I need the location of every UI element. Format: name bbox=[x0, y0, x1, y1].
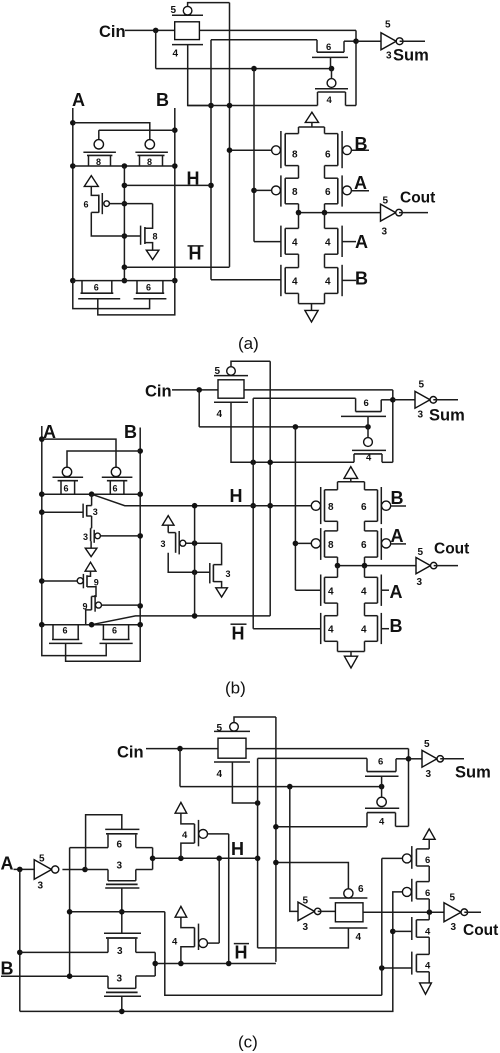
svg-text:4: 4 bbox=[217, 769, 223, 780]
wire lower cross gate arm from A (c) bbox=[20, 951, 108, 953]
wire lower cross arms right (c) bbox=[136, 952, 155, 976]
wire Q1 gate from Hbar (a) bbox=[230, 149, 272, 151]
wire TG1 bottom gate riser (b) bbox=[231, 402, 354, 462]
wire bottom rail (a) bbox=[73, 280, 175, 282]
transistor M6 pass (b) bbox=[341, 398, 393, 427]
inverter U2 Cout (b) bbox=[416, 557, 458, 573]
label 4 TG2 (c) bbox=[356, 932, 362, 943]
svg-text:B: B bbox=[355, 134, 368, 154]
wire Q4 gate to A (a) bbox=[351, 190, 369, 192]
wire Q6 gate to A (b) bbox=[381, 589, 389, 591]
wire Sum node vertical (c) bbox=[408, 749, 410, 827]
svg-text:6: 6 bbox=[325, 150, 331, 161]
label 8 P2 (a) bbox=[147, 157, 152, 167]
svg-text:Sum: Sum bbox=[455, 764, 491, 782]
svg-text:3: 3 bbox=[117, 974, 123, 985]
svg-text:4: 4 bbox=[361, 625, 367, 636]
svg-text:6: 6 bbox=[325, 187, 331, 198]
svg-text:8: 8 bbox=[328, 540, 334, 551]
transistor Q7 row4 left 4 (b) bbox=[321, 613, 338, 644]
svg-text:4: 4 bbox=[425, 961, 431, 972]
label 6 M6 (b) bbox=[364, 398, 369, 409]
label 4 TG1 (b) bbox=[217, 409, 223, 420]
transistor Q6 row3 right 4 (b) bbox=[365, 566, 382, 606]
Sum label (a) bbox=[393, 47, 429, 65]
TG1 top gate bubble (c) bbox=[230, 723, 239, 732]
label 5 U1 (c) bbox=[424, 739, 430, 750]
wire drain line transistor M4 (a) bbox=[188, 105, 318, 107]
svg-text:5: 5 bbox=[450, 893, 456, 904]
transistor P4 mid 3 (b) bbox=[91, 528, 101, 548]
svg-text:4: 4 bbox=[361, 587, 367, 598]
wire line y912 (c) bbox=[70, 911, 165, 913]
wire node Cout row (b) bbox=[338, 557, 417, 566]
wire TG1 bottom gate riser (a) bbox=[188, 45, 211, 106]
transistor P9b mid 9 (b) bbox=[92, 595, 102, 612]
svg-text:Cin: Cin bbox=[99, 23, 126, 41]
node rail center (b) bbox=[89, 491, 95, 497]
svg-text:5: 5 bbox=[171, 5, 177, 16]
svg-text:6: 6 bbox=[64, 484, 69, 494]
wire Hbar column vertical (c) bbox=[275, 717, 277, 962]
svg-text:4: 4 bbox=[182, 830, 188, 841]
label 4 T3 (c) bbox=[425, 927, 431, 938]
svg-text:4: 4 bbox=[217, 409, 223, 420]
label 3 X4 (c) bbox=[117, 974, 123, 985]
wire Q8 gate to B (a) bbox=[342, 279, 356, 281]
ground symbol stack (c) bbox=[420, 983, 432, 994]
svg-text:A: A bbox=[354, 173, 367, 193]
svg-text:3: 3 bbox=[161, 539, 166, 549]
label 8 Q3 (a) bbox=[292, 187, 298, 198]
wire P5 drain to N6 gate (b) bbox=[168, 553, 210, 573]
wire Sum node vertical (a) bbox=[355, 30, 357, 105]
node T2 T3 gate dot (c) bbox=[390, 929, 396, 935]
svg-text:3: 3 bbox=[382, 227, 388, 238]
wire X2 gate riser (c) bbox=[121, 888, 123, 933]
svg-text:Sum: Sum bbox=[429, 407, 465, 425]
node line y912 left dot (c) bbox=[67, 909, 73, 915]
wire P9a drain riser (b) bbox=[87, 587, 96, 597]
caption (b) bbox=[225, 679, 246, 698]
wire P3 drain (a) bbox=[91, 212, 140, 236]
wire ladder bottom (a) bbox=[299, 293, 325, 310]
wire P9b source drop (b) bbox=[86, 610, 92, 625]
inverter U2 Cout (a) bbox=[381, 204, 429, 221]
svg-text:4: 4 bbox=[379, 817, 385, 828]
transistor P2 right 6 (b) bbox=[102, 467, 133, 494]
transistor N2 bottom left (a) bbox=[78, 281, 120, 299]
svg-text:Cin: Cin bbox=[145, 383, 172, 401]
label 3 U3 (c) bbox=[38, 881, 44, 892]
wire Cin to gate line (a) bbox=[156, 30, 332, 68]
label 6 M6 (c) bbox=[378, 757, 383, 768]
node Sum junction (a) bbox=[353, 38, 359, 44]
wire N2 gate cross (a) bbox=[98, 281, 175, 315]
wire Q3 gate (a) bbox=[254, 189, 272, 191]
node Cin junction (c) bbox=[177, 746, 183, 752]
transmission gate TG1 box (a) bbox=[175, 22, 200, 40]
wire Q2 gate to B (a) bbox=[351, 149, 369, 151]
TG1 top gate bubble (a) bbox=[183, 6, 192, 15]
svg-text:3: 3 bbox=[303, 922, 309, 933]
inverter U1 Sum (c) bbox=[409, 750, 465, 767]
caption (a) bbox=[238, 334, 259, 353]
wire inter staple row1-2 (a) bbox=[299, 166, 325, 179]
label 4 Q8 (a) bbox=[325, 277, 331, 288]
transistor T1 stack 6 (c) bbox=[402, 846, 429, 882]
svg-text:6: 6 bbox=[364, 398, 369, 409]
wire Q4 gate to A (b) bbox=[391, 543, 406, 545]
svg-text:A: A bbox=[391, 526, 404, 546]
transistor N1 mid 3 (b) bbox=[83, 494, 92, 528]
svg-text:(a): (a) bbox=[238, 334, 259, 353]
TG1 bottom gate plate (a) bbox=[172, 44, 203, 46]
wire ladder bottom (b) bbox=[338, 641, 365, 656]
label 6 M6 (a) bbox=[326, 42, 331, 53]
wire Hbar line (a) bbox=[124, 266, 229, 268]
label 6 Q2 (b) bbox=[361, 502, 367, 513]
wire A input (c) bbox=[14, 868, 35, 870]
wire column x289 to inverter (c) bbox=[290, 787, 298, 912]
power Vdd triangle 9-cluster (b) bbox=[85, 562, 96, 576]
svg-text:(b): (b) bbox=[225, 679, 246, 698]
power Vdd triangle ladder (b) bbox=[344, 467, 358, 482]
transistor Q8 row4 right 4 (b) bbox=[365, 613, 382, 644]
wire P9a gate from A (b) bbox=[42, 580, 77, 582]
node H line dots (b) bbox=[192, 503, 198, 509]
label 6 N8 (b) bbox=[112, 626, 117, 636]
Cout label (b) bbox=[434, 541, 469, 558]
Sum label (c) bbox=[455, 764, 491, 782]
transistor Q3 row2 left 8 (a) bbox=[272, 175, 299, 206]
svg-text:5: 5 bbox=[419, 380, 425, 391]
wire A to right PMOS gate (b) bbox=[42, 439, 116, 467]
label 3 N6 (b) bbox=[226, 569, 231, 579]
inverter U1 Sum (b) bbox=[393, 391, 458, 408]
wire A line bottom (c) bbox=[20, 892, 403, 1012]
wire Q8 gate to B (b) bbox=[381, 628, 389, 630]
transistor P2 right (a) bbox=[135, 140, 168, 166]
TG1 bottom gate plate (c) bbox=[214, 761, 250, 763]
svg-text:A: A bbox=[72, 90, 85, 110]
wire loop to T gates (c) bbox=[165, 912, 382, 996]
A label row2 (a) bbox=[354, 173, 367, 193]
wire X4 gate riser (c) bbox=[121, 996, 123, 1011]
node gate line dots (c) bbox=[287, 784, 384, 790]
node TG riser to H column (c) bbox=[255, 800, 261, 806]
A label (b) bbox=[43, 422, 56, 442]
svg-text:3: 3 bbox=[117, 860, 123, 871]
svg-text:4: 4 bbox=[327, 95, 333, 106]
transistor Q4 row2 right 6 (a) bbox=[325, 175, 352, 206]
wire Cin input (a) bbox=[125, 29, 356, 31]
label 6 N3 (a) bbox=[146, 283, 151, 293]
label 4 M4 (b) bbox=[366, 453, 372, 464]
svg-text:6: 6 bbox=[425, 855, 430, 866]
wire Vdd stem (a) bbox=[91, 186, 99, 195]
label 9 P9a (b) bbox=[94, 578, 99, 588]
wire H column to TG2 bottom gate (c) bbox=[258, 928, 349, 948]
A label row3 (b) bbox=[390, 582, 403, 602]
svg-text:4: 4 bbox=[292, 238, 298, 249]
transistor P1 left (a) bbox=[83, 140, 116, 166]
svg-text:8: 8 bbox=[328, 502, 334, 513]
wire inter staple row3-4 (a) bbox=[299, 254, 325, 267]
power Vdd triangle mid (b) bbox=[162, 516, 174, 533]
label 8 Q1 (a) bbox=[292, 150, 298, 161]
wire B to left PMOS gate (a) bbox=[99, 130, 175, 140]
transistor Q5 row3 left 4 (a) bbox=[281, 213, 299, 257]
transmission gate TG1 box (c) bbox=[218, 738, 246, 758]
svg-text:6: 6 bbox=[84, 200, 89, 210]
transistor T2 stack 6 (c) bbox=[402, 879, 429, 912]
wire N8 gate cross (b) bbox=[42, 625, 106, 656]
B label (c) bbox=[1, 959, 14, 979]
node Cin junction (a) bbox=[153, 28, 159, 34]
label 4 Q7 (b) bbox=[328, 625, 334, 636]
transistor N3 bottom right (a) bbox=[134, 281, 167, 299]
label 8 Q1 (b) bbox=[328, 502, 334, 513]
node Hbar line dots (c) bbox=[178, 961, 231, 967]
svg-text:8: 8 bbox=[292, 150, 298, 161]
wire Cin to gate line (c) bbox=[180, 749, 382, 787]
inverter U2 Cout (c) bbox=[444, 903, 481, 922]
wire arm column x69 (c) bbox=[69, 848, 71, 977]
node column x295 row2 (b) bbox=[293, 541, 299, 547]
svg-text:6: 6 bbox=[361, 502, 367, 513]
transistor Q7 row4 left 4 (a) bbox=[281, 265, 299, 296]
wire Cin input (b) bbox=[172, 389, 393, 391]
B label row1 (a) bbox=[355, 134, 368, 154]
node H node (c) bbox=[150, 856, 156, 862]
svg-text:3: 3 bbox=[417, 577, 423, 588]
svg-text:B: B bbox=[390, 616, 403, 636]
svg-text:4: 4 bbox=[172, 937, 178, 948]
label 3 U2 (b) bbox=[417, 577, 423, 588]
TG1 top gate bubble (b) bbox=[227, 367, 236, 376]
transistor Q2 row1 right 6 (b) bbox=[365, 487, 391, 524]
svg-text:6: 6 bbox=[326, 42, 331, 53]
wire ladder top staple (a) bbox=[299, 127, 325, 134]
label 5 TG1 (c) bbox=[217, 723, 223, 734]
node Sum junction (c) bbox=[406, 756, 412, 762]
svg-text:3: 3 bbox=[426, 769, 432, 780]
label 8 N1 (a) bbox=[153, 232, 158, 242]
label 3 P4 (b) bbox=[83, 532, 88, 542]
node gate line dots (b) bbox=[293, 424, 371, 430]
svg-text:4: 4 bbox=[325, 277, 331, 288]
transistor Q6 row3 right 4 (a) bbox=[325, 213, 343, 257]
transistor P3 mid (a) bbox=[99, 193, 110, 214]
transistor X1 upper cross 6 (c) bbox=[105, 829, 139, 847]
inverter U4 mid (c) bbox=[298, 902, 335, 920]
transistor Q1 row1 left 8 (a) bbox=[272, 131, 299, 168]
wire B column (a) bbox=[174, 108, 176, 281]
transistor M6 pass (a) bbox=[312, 40, 356, 69]
B label row4 (b) bbox=[390, 616, 403, 636]
transistor Q3 row2 left 8 (b) bbox=[311, 528, 337, 560]
wire N1 gate from A (b) bbox=[42, 511, 83, 513]
node drain line junctions (a) bbox=[227, 103, 233, 109]
wire center column (a) bbox=[123, 166, 125, 281]
ground symbol N6 (b) bbox=[216, 588, 228, 597]
label 4 T4 (c) bbox=[425, 961, 431, 972]
label 6 T1 (c) bbox=[425, 855, 430, 866]
wire Cin input (c) bbox=[146, 748, 409, 750]
node H column dots (b) bbox=[250, 503, 256, 509]
label 4 Q7 (a) bbox=[292, 277, 298, 288]
node Hbar column dots (b) bbox=[267, 503, 273, 509]
node Cout dots (a) bbox=[296, 210, 328, 216]
Hbar label (b) bbox=[231, 624, 247, 644]
svg-text:6: 6 bbox=[361, 540, 367, 551]
transmission gate TG2 box (c) bbox=[335, 903, 363, 922]
svg-text:4: 4 bbox=[328, 625, 334, 636]
H label (b) bbox=[230, 486, 243, 506]
wire inter staple row3-4 (b) bbox=[338, 603, 365, 616]
transistor X4 lower cross 3 (c) bbox=[104, 976, 141, 996]
svg-text:Sum: Sum bbox=[393, 47, 429, 65]
transistor T3 stack 4 (c) bbox=[412, 912, 429, 954]
transistor M4 pass (b) bbox=[352, 427, 393, 462]
label 6 TG2 (c) bbox=[358, 884, 364, 895]
wire TG1 bubble to Hbar column (a) bbox=[188, 3, 230, 7]
svg-text:A: A bbox=[1, 854, 14, 874]
svg-text:5: 5 bbox=[217, 723, 223, 734]
wire Q6 gate to A (a) bbox=[342, 241, 356, 243]
wire bottom rail (b) bbox=[42, 624, 140, 626]
label 4 M4 (c) bbox=[379, 817, 385, 828]
TG1 bottom gate plate (b) bbox=[214, 401, 248, 403]
svg-text:6: 6 bbox=[63, 626, 68, 636]
wire A to right PMOS gate (a) bbox=[73, 123, 150, 140]
node B column dots (b) bbox=[137, 448, 143, 609]
label 3 N1 (b) bbox=[93, 507, 98, 517]
wire column x219 (c) bbox=[208, 858, 220, 943]
node gate line dots (a) bbox=[251, 66, 334, 72]
svg-text:5: 5 bbox=[215, 366, 221, 377]
wire Q5 gate (b) bbox=[295, 589, 320, 591]
svg-text:6: 6 bbox=[112, 626, 117, 636]
node N6 gate junction (b) bbox=[192, 570, 198, 576]
transistor N1 mid (a) bbox=[141, 226, 145, 245]
node Hbar line dot (b) bbox=[192, 613, 198, 619]
wire A column (a) bbox=[72, 108, 74, 281]
wire Q7 gate from H (a) bbox=[211, 279, 281, 281]
transistor N8 bottom right 6 (b) bbox=[100, 625, 133, 644]
label 6 Q2 (a) bbox=[325, 150, 331, 161]
svg-text:5: 5 bbox=[385, 20, 391, 31]
svg-text:Cout: Cout bbox=[400, 190, 435, 207]
node A junction (c) bbox=[17, 867, 23, 873]
wire upper cross gate loop (c) bbox=[86, 815, 122, 870]
transistor N6 mid 3 (b) bbox=[210, 563, 214, 583]
transistor M4 pass (a) bbox=[315, 69, 356, 106]
svg-text:5: 5 bbox=[418, 547, 424, 558]
svg-text:6: 6 bbox=[117, 840, 123, 851]
svg-text:A: A bbox=[390, 582, 403, 602]
wire TG2 output (c) bbox=[363, 911, 444, 913]
transistor P6 upper cluster 4 (c) bbox=[195, 820, 208, 846]
label 5 U1 (a) bbox=[385, 20, 391, 31]
wire node Cout row (a) bbox=[299, 204, 381, 213]
svg-text:B: B bbox=[156, 90, 169, 110]
wire upper cross arms right (c) bbox=[136, 848, 153, 870]
wire TG1 bottom gate riser (c) bbox=[232, 762, 257, 803]
wire TG1 bubble loop to Hbar column (c) bbox=[234, 717, 276, 723]
label 4 M4 (a) bbox=[327, 95, 333, 106]
label 6 P1 (b) bbox=[64, 484, 69, 494]
wire H column (a) bbox=[211, 40, 317, 280]
node drain line junction (c) bbox=[273, 824, 279, 830]
svg-text:4: 4 bbox=[356, 932, 362, 943]
wire inter staple row1-2 (b) bbox=[338, 521, 365, 531]
wire TG2 bubble riser (c) bbox=[276, 863, 349, 889]
power Vdd triangle stack (c) bbox=[423, 829, 435, 849]
wire Cin to gate line (b) bbox=[199, 390, 368, 427]
label 3 P5 (b) bbox=[161, 539, 166, 549]
wire upper cross arms left (c) bbox=[70, 848, 108, 870]
wire T3 gate (c) bbox=[393, 930, 412, 932]
TG2 top gate bubble (c) bbox=[344, 889, 353, 898]
node drain line dots (b) bbox=[250, 460, 273, 466]
svg-text:8: 8 bbox=[153, 232, 158, 242]
label 3 U1 (b) bbox=[418, 410, 424, 421]
svg-text:B: B bbox=[355, 269, 368, 289]
label 4 Q5 (a) bbox=[292, 238, 298, 249]
transistor P1 left 6 (b) bbox=[53, 467, 84, 494]
label 3 X3 (c) bbox=[117, 946, 123, 957]
node A line dot (c) bbox=[119, 1009, 125, 1015]
label 9 P9b (b) bbox=[83, 602, 88, 612]
inverter U1 Sum (a) bbox=[356, 33, 425, 50]
node rail center (a) bbox=[122, 163, 128, 169]
wire column x194 (b) bbox=[194, 506, 196, 616]
B label (a) bbox=[156, 90, 169, 110]
transistor P5 mid 3 (b) bbox=[168, 531, 186, 554]
svg-text:6: 6 bbox=[146, 283, 151, 293]
wire P6 gate to column (c) bbox=[208, 834, 229, 964]
label 6 X1 (c) bbox=[117, 840, 123, 851]
power Vdd triangle lower cluster (c) bbox=[175, 906, 194, 927]
svg-text:6: 6 bbox=[358, 884, 364, 895]
wire TG1 bubble loop to Hbar column (b) bbox=[231, 361, 270, 367]
label 4 Q6 (b) bbox=[361, 587, 367, 598]
svg-text:A: A bbox=[355, 232, 368, 252]
svg-text:(c): (c) bbox=[238, 1033, 258, 1052]
wire M4 drain line (c) bbox=[276, 826, 367, 828]
label 5 TG1 (b) bbox=[215, 366, 221, 377]
svg-text:3: 3 bbox=[38, 881, 44, 892]
svg-text:B: B bbox=[391, 488, 404, 508]
ground symbol ladder (b) bbox=[344, 656, 357, 668]
wire B to left PMOS gate (b) bbox=[67, 451, 140, 467]
label 3 U1 (a) bbox=[386, 51, 392, 62]
TG1 top gate plate (b) bbox=[214, 375, 248, 377]
svg-text:Cout: Cout bbox=[463, 922, 498, 939]
svg-text:5: 5 bbox=[424, 739, 430, 750]
label 3 X2 (c) bbox=[117, 860, 123, 871]
Sum label (b) bbox=[429, 407, 465, 425]
node column x254 row2 (a) bbox=[251, 188, 257, 194]
wire B column (b) bbox=[139, 428, 141, 625]
node T4 gate dot (c) bbox=[379, 965, 385, 971]
label 8 P1 (a) bbox=[96, 157, 101, 167]
transistor P9a mid 9 (b) bbox=[77, 574, 87, 588]
node Hbar node (c) bbox=[152, 961, 158, 967]
svg-text:4: 4 bbox=[325, 238, 331, 249]
